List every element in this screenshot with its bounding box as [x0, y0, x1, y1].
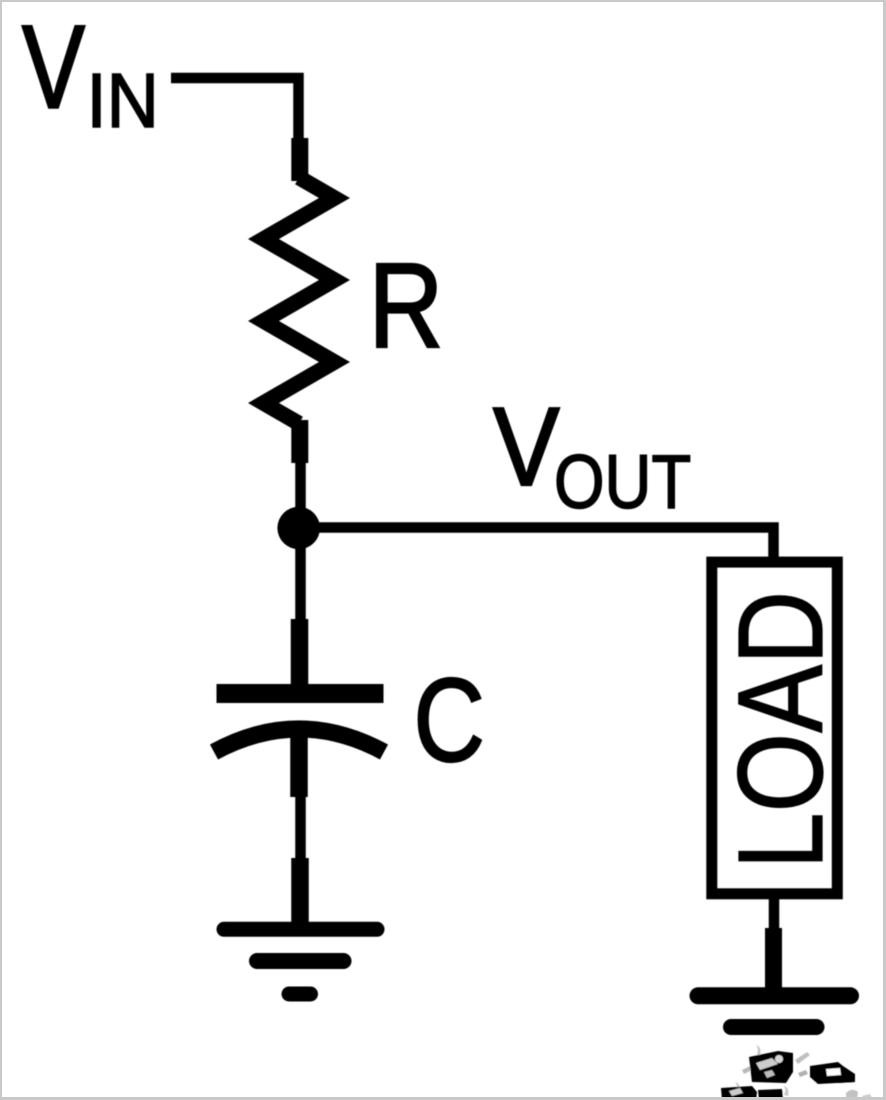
svg-text:LOAD: LOAD — [713, 591, 848, 869]
wire capacitor top — [295, 545, 306, 622]
watermark scribbles — [721, 1045, 872, 1100]
label VIN — [22, 0, 159, 143]
label VOUT — [493, 385, 691, 524]
ground lead (capacitor) — [291, 858, 309, 924]
ground lead (load) — [765, 928, 782, 988]
capacitor C top lead — [291, 619, 309, 700]
wire node to load — [310, 528, 774, 563]
wire resistor to node — [295, 458, 306, 528]
svg-text:OUT: OUT — [554, 439, 691, 524]
capacitor C bottom lead — [290, 722, 308, 797]
resistor R zigzag — [264, 178, 335, 424]
svg-text:V: V — [22, 0, 85, 133]
load box U1 — [712, 562, 838, 894]
wire capacitor to ground — [295, 795, 306, 862]
ground (load) — [698, 996, 851, 1027]
svg-text:V: V — [493, 385, 560, 509]
capacitor C flat plate — [217, 684, 384, 703]
wire VIN to resistor — [171, 78, 299, 140]
wire load to ground — [769, 896, 780, 932]
svg-text:IN: IN — [87, 57, 159, 144]
ground (capacitor) — [224, 929, 377, 994]
capacitor C curved plate — [214, 729, 384, 752]
resistor R bottom lead — [291, 420, 308, 463]
resistor R top lead — [291, 138, 308, 181]
svg-text:C: C — [414, 654, 485, 787]
svg-text:R: R — [369, 237, 444, 372]
node junction dot — [277, 507, 320, 550]
